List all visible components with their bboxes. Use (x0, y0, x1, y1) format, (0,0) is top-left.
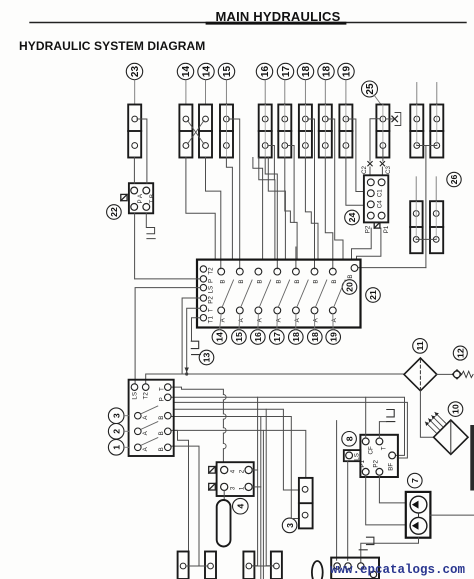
valve F ports (282, 116, 288, 148)
svg-text:11: 11 (415, 341, 425, 350)
svg-text:B: B (331, 279, 338, 283)
svg-text:P2: P2 (208, 296, 215, 304)
wire lower block B2 row to comp3 top (174, 430, 306, 478)
port LS (131, 384, 138, 391)
wire valve A bottom to block22 port A (133, 158, 135, 184)
center line through valve K (416, 105, 418, 146)
valve C ports (203, 116, 209, 148)
arrowhead on T wire (185, 368, 189, 373)
solenoid valve block 4 (209, 462, 254, 496)
svg-text:C1: C1 (377, 189, 384, 197)
svg-text:15: 15 (222, 66, 233, 78)
wire valve C bottom to block port B1 (206, 158, 221, 269)
svg-text:13: 13 (202, 353, 212, 363)
main control valve block (items 20/21) (197, 260, 361, 330)
balloon 4 (233, 498, 249, 514)
wire valve G side tap to block port B6 (308, 119, 315, 269)
svg-text:B: B (275, 279, 282, 283)
balloon 17 (277, 63, 293, 79)
wire valve B bottom to block edge (186, 158, 215, 260)
wire staircase from valve E left to block edge (259, 158, 275, 260)
hop arcs on T wire (223, 395, 226, 449)
wire block22 A down to main block P line (134, 213, 136, 279)
bottom valve 3 (243, 552, 254, 579)
balloon 17 (lower row) (270, 330, 285, 345)
wire from chain into last B port of main block (358, 267, 426, 269)
wire staircase from valve E right to block edge (268, 158, 285, 260)
stub above valve N (435, 177, 437, 201)
center line through valve F (284, 105, 286, 158)
oil cooler (item 10) (425, 412, 468, 454)
X plug above C2 (368, 162, 372, 166)
plug X at valve J outlet (392, 116, 398, 122)
balloon 18 (lower row a) (289, 330, 304, 345)
center line through valve G (304, 105, 306, 158)
cross link between valves B and C (188, 121, 205, 145)
wire main block P2 down to filter line (182, 298, 201, 374)
ports A1-A3 (135, 412, 142, 419)
svg-text:A: A (275, 317, 282, 322)
wire filter out to check valve (437, 373, 453, 375)
wire link valve K and L bottoms (417, 145, 437, 147)
svg-text:18: 18 (301, 66, 312, 78)
leader stubs balloons 1-3 (124, 415, 129, 417)
wire valve E center to block port B4 (265, 158, 277, 269)
port P (200, 276, 206, 282)
valve D (item 15) body (220, 105, 233, 158)
stub above valve K (416, 83, 418, 105)
wire vertical from K/L link down past M/N to main block (425, 146, 427, 268)
wire filter bottom to cooler (420, 391, 433, 437)
svg-text:P2: P2 (364, 225, 371, 233)
balloon 14 (lower row) (212, 330, 227, 345)
check valve (item 12) (452, 370, 473, 379)
wire block24 P1 to main block top edge (357, 228, 381, 260)
leader line balloon 16 (264, 80, 266, 105)
heat arrows (425, 412, 446, 433)
wire riser to bottom block (336, 421, 338, 561)
balloon 2 (left) (108, 424, 124, 440)
wire block4 port3 to accumulator (223, 491, 225, 501)
X plug above C3 (380, 162, 384, 166)
port T2 (200, 266, 206, 272)
ports B1-B7 top row (218, 268, 225, 275)
svg-text:T: T (208, 308, 215, 312)
port P (165, 394, 172, 401)
port T (165, 384, 172, 391)
wire valve F bottom to block edge (285, 158, 297, 260)
svg-text:P: P (158, 397, 165, 401)
valve M ports (413, 211, 419, 243)
tandem pump (item 7) (406, 492, 431, 538)
leader line balloon 17 (284, 80, 286, 105)
wire lower block B1 to comp3 lower port (171, 417, 299, 519)
svg-text:A: A (294, 317, 301, 322)
svg-text:26: 26 (449, 175, 459, 185)
balloon 11 (413, 339, 428, 354)
wire main block P to riser (135, 278, 201, 280)
wire staircase to block edge (D-E gap) (253, 158, 263, 260)
svg-text:A: A (313, 317, 320, 322)
balloon 12 (453, 346, 467, 360)
svg-text:4: 4 (235, 504, 245, 509)
wire valve H bottom to block port B7 (325, 158, 333, 269)
LS sub-port block (344, 450, 361, 461)
svg-text:HYDRAULIC SYSTEM DIAGRAM: HYDRAULIC SYSTEM DIAGRAM (19, 39, 205, 53)
balloon 19 (338, 63, 354, 79)
bottom valve 1 (178, 552, 189, 579)
valve L ports (434, 116, 440, 148)
valve E (item 16) body (259, 105, 272, 158)
svg-text:16: 16 (260, 66, 271, 78)
svg-text:3: 3 (111, 413, 121, 418)
wire valve F bottom tap (287, 146, 294, 223)
spool diagonals (141, 406, 158, 414)
riser bundle line d to valve V4 (266, 409, 273, 566)
plug bracket item 13 (191, 341, 200, 354)
tank ellipse (312, 561, 323, 579)
spool diagonals A to B row (223, 280, 234, 306)
valve L body (430, 105, 443, 158)
pump suction line right (430, 514, 474, 516)
valve E ports (262, 116, 268, 148)
valve N body (430, 201, 443, 253)
valve K ports (414, 116, 420, 148)
svg-text:B: B (294, 279, 301, 283)
svg-text:P1: P1 (383, 225, 390, 233)
balloon 16 (lower row) (250, 330, 265, 345)
svg-text:A: A (257, 317, 264, 322)
leader line balloon 19 (345, 80, 347, 105)
valve G (item 18) body (299, 105, 312, 158)
wire to comp3 upper port (174, 409, 299, 490)
watermark www.epcatalogs.com (330, 563, 465, 577)
balloon 26 (447, 172, 461, 186)
balloon 8 (342, 432, 357, 447)
balloon 19 (lower row) (326, 330, 341, 345)
port B8 (351, 265, 358, 272)
riser bundle line a to valve V3 (252, 397, 258, 565)
svg-text:C3: C3 (385, 165, 392, 173)
drain bracket under block 22 (147, 228, 155, 239)
balloon 10 (448, 402, 463, 417)
svg-text:18: 18 (310, 332, 320, 342)
svg-text:14: 14 (181, 66, 192, 78)
balloon 18 (second) (318, 63, 334, 79)
wire valve J bottom to port C3 of block 24 (382, 148, 384, 161)
balloon 14 (first) (177, 63, 193, 79)
valve A ports (132, 116, 138, 148)
svg-text:B: B (158, 416, 165, 420)
title MAIN HYDRAULICS (30, 9, 466, 24)
svg-text:T: T (158, 387, 165, 391)
valve J (item 25) body (376, 105, 389, 158)
valve D ports (224, 116, 230, 148)
bottom valve 2 (205, 552, 216, 579)
svg-text:T2: T2 (143, 392, 150, 400)
svg-text:B: B (313, 279, 320, 283)
valve H ports (322, 116, 328, 148)
svg-text:18: 18 (291, 332, 301, 342)
svg-text:C4: C4 (377, 200, 384, 208)
center line through valve N (435, 201, 437, 239)
valve N ports (433, 211, 439, 243)
svg-text:2: 2 (111, 429, 121, 434)
riser bundle line c (262, 430, 264, 579)
lower control valve block (items 1/2/3) (124, 380, 174, 456)
wire main block T1 to plug bracket 13 (192, 318, 201, 341)
pump case drain down (361, 538, 419, 563)
wire valve A side tap to block22 port B (137, 119, 147, 183)
balloon 18 (lower row b) (308, 330, 323, 345)
svg-text:CF: CF (367, 446, 374, 454)
leader line balloon 25 (374, 95, 381, 105)
svg-text:25: 25 (365, 83, 376, 95)
valve B ports (183, 116, 189, 148)
valve I ports (343, 116, 349, 148)
wire comp8 P2 to upper pump (379, 475, 405, 503)
svg-text:A: A (142, 430, 149, 435)
drain bracket left of pump (359, 537, 374, 550)
balloon 3 (left) (108, 408, 124, 424)
svg-text:B: B (219, 279, 226, 283)
svg-text:LS: LS (353, 453, 360, 461)
center line through valve H (324, 105, 326, 158)
suction block (bottom) (331, 558, 379, 579)
svg-text:15: 15 (234, 332, 244, 342)
wire lower block T2 up to filter line (146, 374, 182, 384)
wire feed to block port B5 (295, 247, 297, 269)
pilot bracket right of valve J (386, 113, 401, 126)
center line through valve J (382, 105, 384, 158)
svg-text:BF: BF (388, 463, 395, 471)
svg-text:7: 7 (410, 478, 420, 483)
svg-text:12: 12 (455, 348, 465, 358)
stub above valve M (415, 177, 417, 201)
wire lower block B2 to bottom valve 1 (171, 430, 189, 551)
balloon 3 (right) (282, 518, 297, 533)
link bottom valves 1-2 (186, 565, 208, 567)
leader line balloon 18b (324, 80, 326, 105)
svg-text:T: T (380, 446, 387, 450)
valve B (item 14) body (179, 105, 192, 158)
drain squares left of block 4 (209, 467, 216, 491)
svg-text:A: A (142, 446, 149, 451)
valve C (item 14) body (199, 105, 212, 158)
leader line balloon 14a (185, 80, 187, 105)
svg-text:14: 14 (215, 332, 225, 342)
leader line balloon 23 to valve (134, 80, 136, 105)
ports B1-B3 (165, 412, 172, 419)
line valve 3 (item 3) (299, 478, 313, 529)
wire main block LS left and down to lower block LS (135, 288, 201, 384)
riser bundle line b (260, 417, 262, 579)
balloon 16 (256, 63, 272, 79)
svg-text:18: 18 (322, 66, 333, 78)
balloon 7 (408, 473, 423, 488)
svg-text:LS: LS (208, 286, 215, 294)
valve A (item 23) body (128, 105, 141, 158)
balloon 18 (first) (297, 63, 313, 79)
accumulator capsule (item 4) (217, 500, 231, 547)
valve G ports (303, 116, 309, 148)
svg-text:24: 24 (347, 213, 357, 223)
svg-text:C2: C2 (361, 165, 368, 173)
wire main block T down to filter line (187, 308, 201, 374)
svg-text:B: B (238, 279, 245, 283)
stub above valve L (436, 83, 438, 105)
filter (item 11) (404, 358, 437, 391)
wire block4 port2 to riser (252, 469, 257, 471)
svg-text:3: 3 (285, 523, 295, 528)
wire block24 P2 to main block top edge (352, 228, 372, 260)
wire valve H side tap to block edge (328, 119, 344, 260)
svg-text:B: B (347, 274, 354, 278)
svg-text:P A: P A (137, 193, 144, 203)
wire lower block P to comp8 BF (171, 397, 405, 455)
balloon 13 (199, 350, 214, 365)
drain square under block 24 (374, 222, 380, 228)
balloon 23 (126, 63, 142, 79)
center line through valve L (436, 105, 438, 146)
balloon 14 (second) (198, 63, 214, 79)
leader line balloon 15 (225, 80, 227, 105)
balloon 22 (107, 205, 122, 220)
wire valve G bottom to block edge (305, 158, 318, 260)
svg-text:A: A (142, 415, 149, 420)
wire comp8 T up to drain bracket (379, 422, 386, 438)
balloon 24 (345, 210, 360, 225)
port T1 (200, 315, 206, 321)
return line to filter (182, 373, 404, 375)
wire comp8 LS down to bottom block (347, 461, 349, 560)
solenoid block 24 (361, 165, 392, 233)
svg-text:4: 4 (230, 469, 237, 473)
svg-text:20: 20 (345, 282, 355, 292)
valve I (item 19) body (339, 105, 352, 158)
balloon 20 (342, 280, 357, 295)
tank edge bar (page cut) (470, 425, 474, 491)
svg-text:17: 17 (272, 332, 282, 342)
svg-text:16: 16 (253, 332, 263, 342)
svg-text:10: 10 (451, 404, 461, 414)
svg-text:21: 21 (368, 290, 378, 300)
wire valve I bottom to valve block 24 port C4 (346, 158, 364, 206)
balloon 15 (218, 63, 234, 79)
wire C3 stub into block 24 (381, 167, 383, 175)
wire valve D bottom to block edge (226, 158, 232, 260)
valve K body (410, 105, 423, 158)
balloon 1 (left) (108, 440, 124, 456)
wire lower block B3 to bottom valve 2 (171, 446, 208, 566)
valve H (item 18) body (319, 105, 332, 158)
parallel return wire to BF loop (174, 402, 408, 458)
wire valve J top to port C2 of block 24 (370, 119, 380, 161)
wire comp8 CF up to P line (365, 397, 367, 438)
svg-text:19: 19 (328, 332, 338, 342)
svg-text:B: B (257, 279, 264, 283)
center line through valve D (225, 105, 227, 158)
svg-text:1: 1 (239, 486, 246, 490)
leader stubs A ports to lower balloons (220, 313, 222, 329)
ports A1-A7 bottom row (218, 307, 225, 314)
port P2 (200, 295, 206, 301)
priority valve block 8 (344, 435, 398, 477)
drain bracket above comp8 (387, 410, 395, 422)
port LS (200, 284, 206, 290)
balloon 25 (362, 81, 378, 97)
bottom valve 4 (271, 552, 282, 579)
svg-text:22: 22 (109, 207, 119, 217)
center line through valve E (264, 105, 266, 158)
svg-text:2: 2 (239, 469, 246, 473)
port T (200, 305, 206, 311)
center line through valve M (415, 201, 417, 239)
wire block22 B down to drain bracket (145, 213, 147, 227)
balloon 21 (366, 288, 381, 303)
svg-text:P: P (208, 279, 215, 283)
svg-text:MAIN HYDRAULICS: MAIN HYDRAULICS (215, 9, 340, 24)
svg-text:17: 17 (281, 66, 292, 78)
wire valve D side tap to block port B2 (229, 119, 240, 269)
port T2 (142, 384, 149, 391)
spring (462, 371, 473, 377)
wire C2 stub into block 24 (369, 167, 371, 175)
balloon 15 (lower row) (232, 330, 247, 345)
svg-text:B: B (158, 447, 165, 451)
svg-text:P2: P2 (373, 459, 380, 467)
valve J ports (380, 116, 386, 148)
svg-text:T B: T B (149, 194, 156, 204)
center line through valve I (345, 105, 347, 158)
junction dot (185, 372, 188, 375)
svg-text:14: 14 (202, 66, 213, 78)
wire valve E bottom tap (268, 146, 275, 180)
svg-text:B: B (158, 431, 165, 435)
svg-text:23: 23 (130, 66, 141, 78)
svg-text:3: 3 (230, 486, 237, 490)
link bottom valves 3-4 (252, 565, 274, 567)
svg-text:19: 19 (342, 66, 353, 78)
valve M body (410, 201, 422, 253)
leader line balloon 18a (304, 80, 306, 105)
wire comp8 P1 to lower pump (366, 475, 406, 525)
svg-text:A: A (331, 317, 338, 322)
leader line balloon 14b (205, 80, 207, 105)
svg-text:T2: T2 (208, 267, 215, 275)
wire valve I side tap to valve block 24 port C1 (348, 119, 364, 192)
svg-text:T1: T1 (208, 316, 215, 324)
valve F (item 17) body (278, 105, 291, 158)
drain square left of block 22 (121, 194, 127, 200)
wire lower block T to solenoid block 4 with hops (171, 387, 224, 462)
pilot valve block 22 (121, 183, 156, 213)
svg-text:8: 8 (344, 436, 354, 441)
wire link valve M and N bottoms (416, 238, 436, 240)
wire block4 port1 to riser (252, 486, 261, 488)
svg-text:LS: LS (132, 392, 139, 400)
svg-text:1: 1 (111, 445, 121, 450)
